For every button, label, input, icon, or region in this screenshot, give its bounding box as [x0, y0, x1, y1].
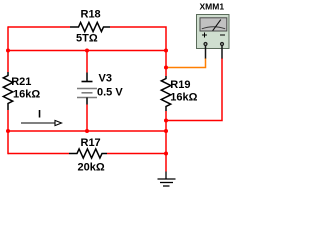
node junction (166,131) [164, 129, 168, 133]
resistor R18 [70, 22, 110, 31]
node junction (87,50.5) [85, 49, 89, 53]
node junction (166,153) [164, 152, 168, 156]
svg-text:16kΩ: 16kΩ [170, 91, 197, 103]
wire left vertical upper [7, 26, 9, 72]
svg-text:16kΩ: 16kΩ [13, 88, 40, 100]
multimeter terminal plus [203, 42, 207, 46]
node junction (166,50.5) [164, 49, 168, 53]
svg-text:0.5 V: 0.5 V [97, 86, 123, 98]
battery V3 [77, 73, 97, 105]
wire right vertical node segment [165, 51, 167, 77]
node junction (8,131) [6, 129, 10, 133]
svg-text:5TΩ: 5TΩ [76, 33, 98, 45]
svg-text:I: I [38, 109, 41, 121]
wire top left-to-R18 [8, 26, 70, 28]
multimeter minus sign [220, 34, 225, 36]
resistor R17 [69, 149, 107, 158]
current arrow I [21, 120, 62, 125]
wire lower bottom left of R17 [8, 153, 69, 155]
node junction (8,50.5) [6, 49, 10, 53]
svg-text:R17: R17 [81, 137, 101, 149]
multimeter dial arc [202, 27, 225, 29]
wire left vertical lower [7, 110, 9, 154]
multimeter plus sign [202, 34, 207, 36]
wire lower bottom right of R17 [107, 153, 166, 155]
multimeter terminal minus [220, 42, 224, 46]
svg-text:V3: V3 [99, 73, 112, 85]
multimeter XMM1 body [197, 15, 230, 59]
svg-text:XMM1: XMM1 [200, 2, 225, 12]
wire R19 bottom to ground top [165, 111, 167, 172]
wire multimeter minus red [166, 58, 222, 121]
svg-text:R21: R21 [11, 76, 31, 88]
node junction (87,131) [85, 129, 89, 133]
ground [158, 172, 176, 187]
wire second horizontal [8, 50, 166, 52]
resistor R19 [161, 76, 170, 111]
node junction (166,67.5) [164, 66, 168, 70]
wire multimeter plus orange [166, 58, 206, 68]
wire R18-to-top-right corner [110, 27, 166, 51]
wire battery top stem [86, 51, 88, 73]
wire battery bottom stem [86, 105, 88, 132]
wire upper bottom horizontal [8, 130, 166, 132]
svg-text:20kΩ: 20kΩ [78, 161, 105, 173]
resistor R21 [3, 72, 12, 110]
svg-text:R18: R18 [81, 8, 101, 20]
svg-text:R19: R19 [170, 79, 190, 91]
multimeter needle [213, 20, 221, 31]
node junction (166,120.5) [164, 119, 168, 123]
